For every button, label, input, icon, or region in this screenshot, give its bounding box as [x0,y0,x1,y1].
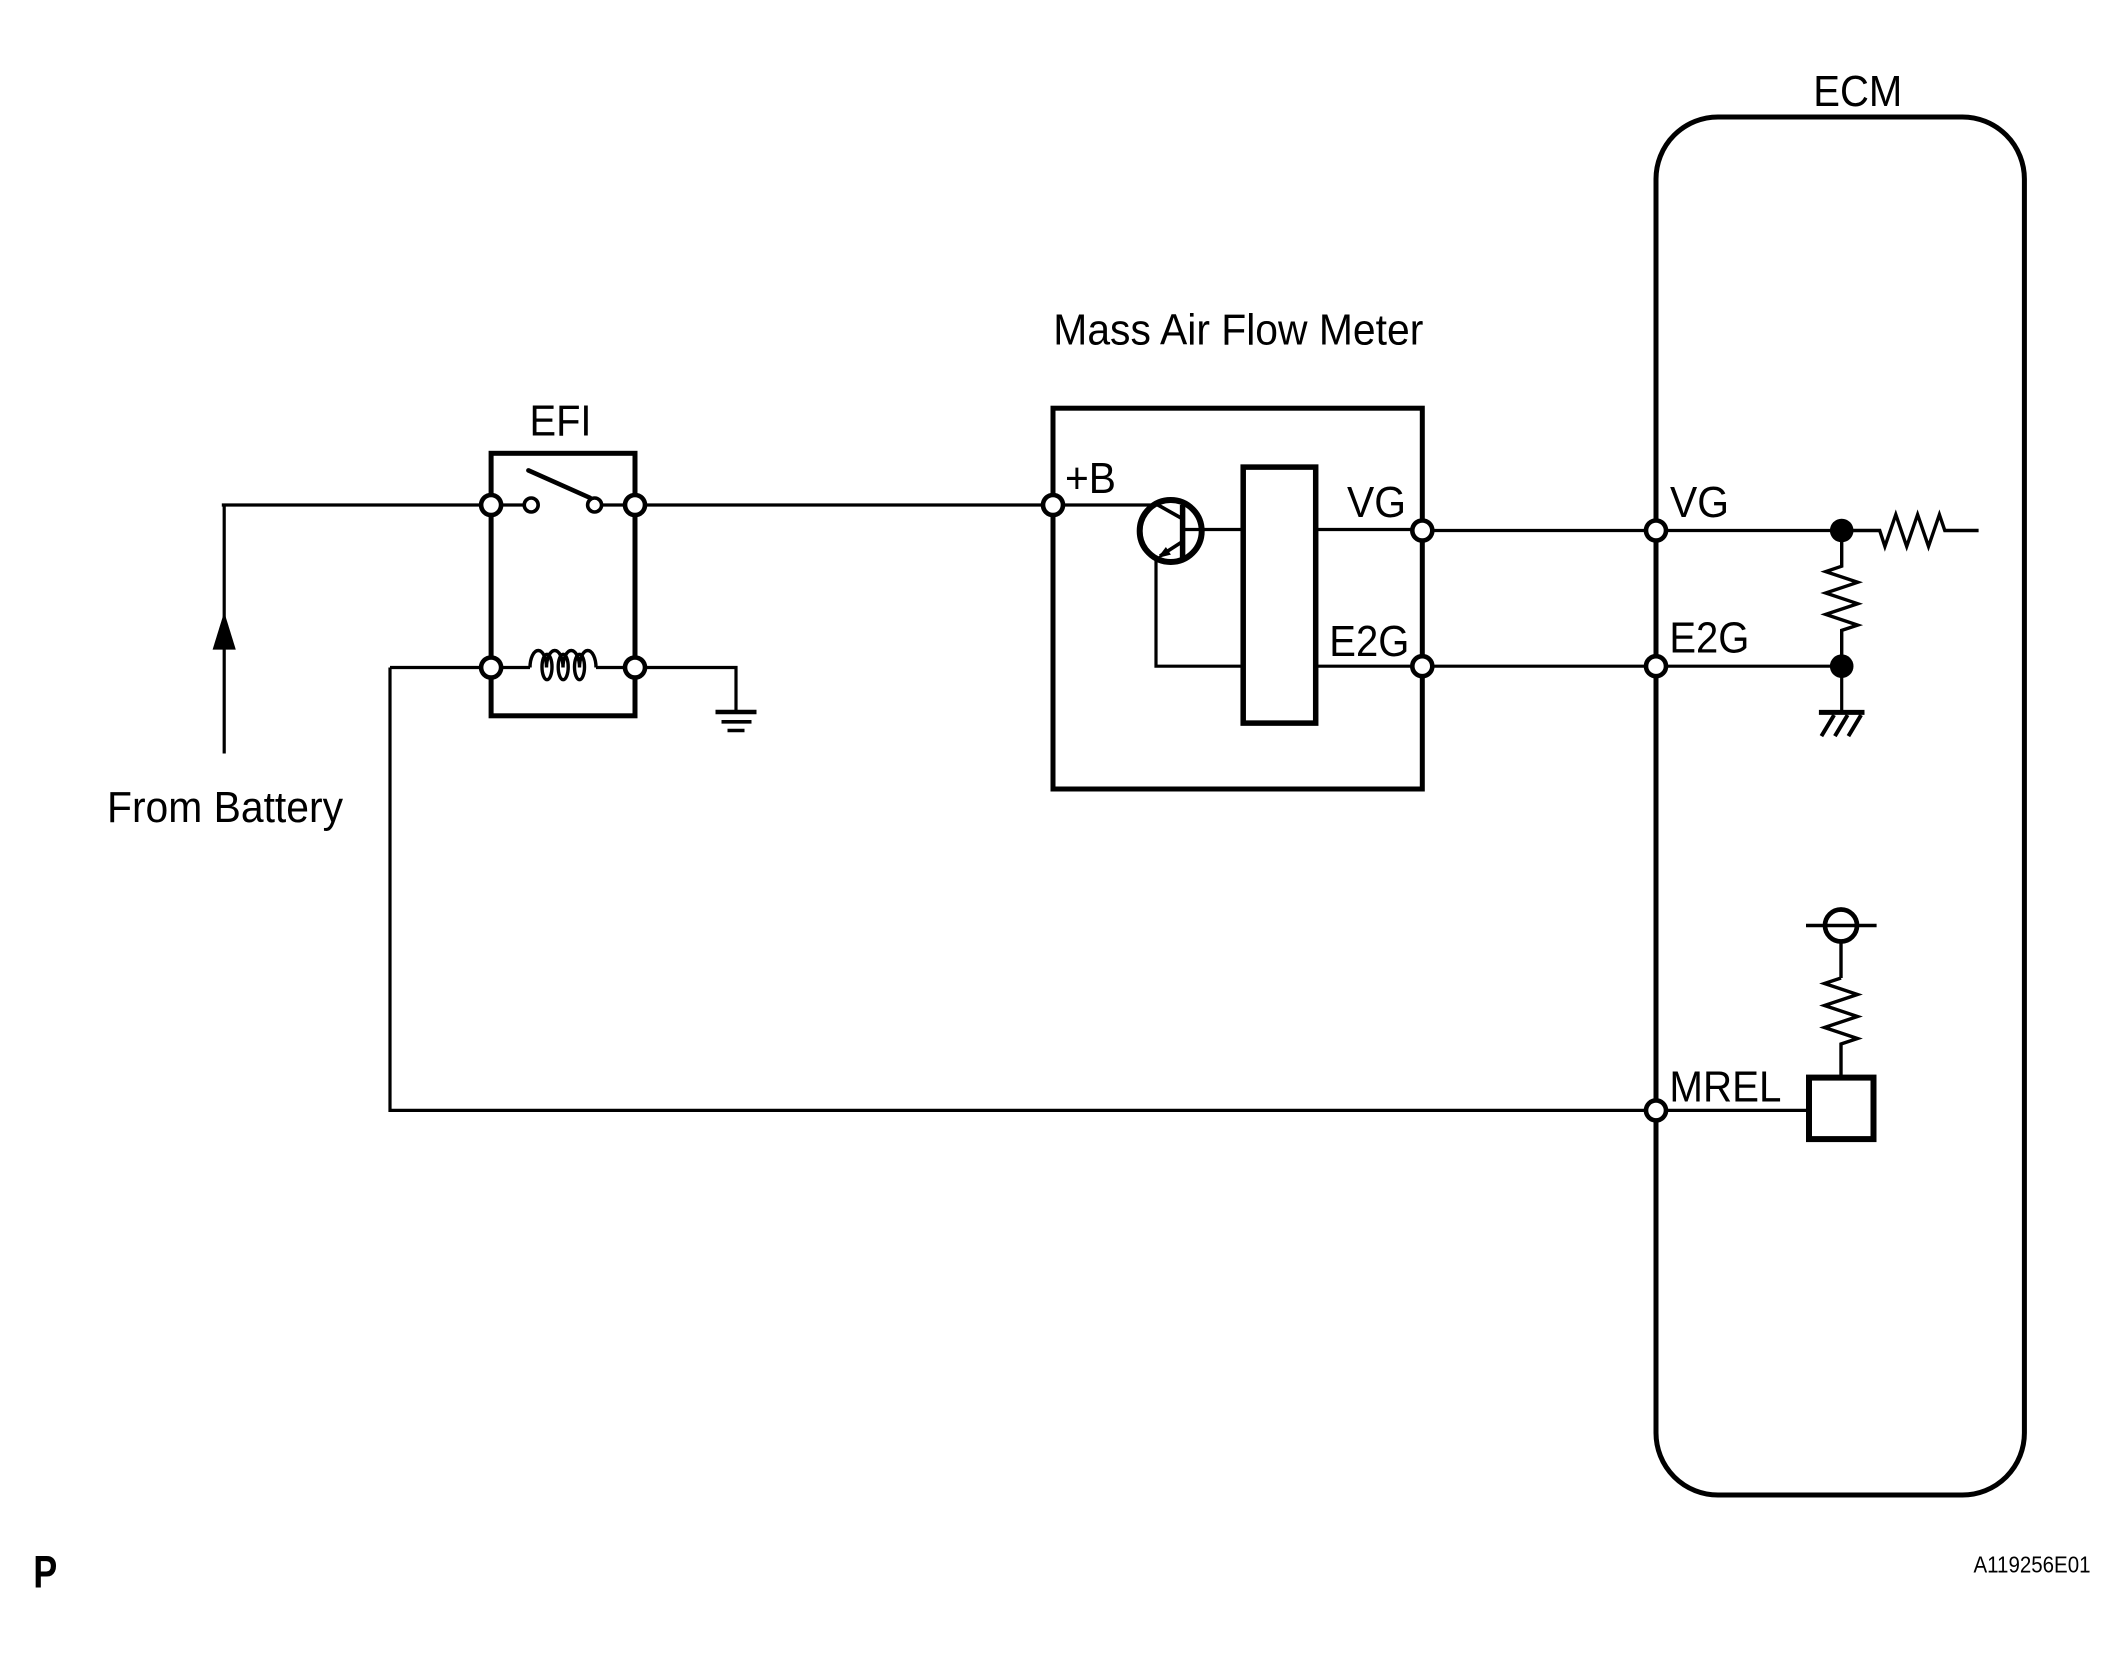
wire coil right terminal to ground [635,668,736,712]
junction node VG [1830,519,1854,543]
wire heater to MAF VG terminal [1316,528,1423,531]
terminal MAF E2G [1412,656,1432,676]
resistor R1 (VG load, horizontal) [1842,515,1979,547]
ground (ECM signal ground) [1819,710,1865,715]
power feed symbol (circle with line) [1825,910,1857,942]
EFI relay box [491,453,635,716]
terminal MAF VG [1412,521,1432,541]
Mass Air Flow Meter box [1053,408,1422,789]
heater resistor element (MAF sensing element) [1243,467,1316,723]
svg-text:P: P [33,1546,57,1597]
battery feed arrowhead [213,612,236,650]
ground (EFI relay coil) [716,710,757,715]
wire +B to transistor [1053,503,1159,506]
transistor Q1 emitter arrowhead [1158,547,1171,558]
wire E2G external (MAF to ECM) [1422,665,1656,668]
wire switch right segment [602,503,635,506]
wire VG inside ECM [1656,529,1842,532]
wire E2G to signal ground [1840,666,1843,712]
wire emitter down and right to heater rect [1156,558,1243,666]
transistor Q1 base bar [1180,505,1186,558]
wire MREL inside ECM [1656,1109,1809,1112]
svg-text:+B: +B [1065,454,1116,503]
terminal ECM MREL [1646,1100,1666,1120]
svg-text:MREL: MREL [1669,1062,1781,1111]
resistor R2 (VG to E2G, vertical) [1826,531,1858,667]
transistor Q1 collector entry diagonal [1158,505,1182,519]
wire circle to resistor R3 [1839,944,1842,979]
EFI relay coil [530,651,596,668]
wire battery vertical [223,505,226,754]
wire coil row left (to down loop) [390,666,530,669]
ECM box [1656,117,2024,1495]
svg-text:E2G: E2G [1329,617,1409,666]
svg-text:VG: VG [1670,478,1729,527]
EFI relay switch contact circle right [588,498,602,512]
wire coil to right terminal [596,666,635,669]
driver block (square) [1809,1078,1874,1140]
terminal ECM VG [1646,521,1666,541]
wire transistor to heater rect (VG row) [1183,528,1244,531]
terminal EFI right upper [625,495,645,515]
wire E2G inside ECM [1656,665,1842,668]
terminal MAF +B [1043,495,1063,515]
svg-text:Mass Air Flow Meter: Mass Air Flow Meter [1053,306,1423,355]
svg-text:E2G: E2G [1669,614,1749,663]
svg-text:VG: VG [1347,478,1406,527]
wire MREL loop (down, across, to ECM) [390,668,1656,1111]
transistor Q1 emitter diagonal [1160,542,1183,557]
terminal ECM E2G [1646,656,1666,676]
wire heater to MAF E2G terminal [1316,665,1423,668]
svg-text:A119256E01: A119256E01 [1974,1551,2091,1577]
EFI relay switch contact circle left [524,498,538,512]
transistor Q1 circle [1140,500,1202,562]
wire VG external (MAF to ECM) [1422,529,1656,532]
wire top long (EFI to MAF +B) [635,503,1053,506]
resistor R3 (MREL pull-up, vertical) [1825,978,1858,1078]
wire switch left segment [491,503,524,506]
wire battery horizontal [222,503,491,506]
terminal EFI right lower [625,658,645,678]
junction node E2G [1830,654,1854,678]
svg-text:EFI: EFI [530,397,592,446]
svg-text:From Battery: From Battery [107,783,343,832]
terminal EFI left lower [481,658,501,678]
EFI relay switch blade [528,470,590,497]
terminal EFI left upper [481,495,501,515]
svg-text:ECM: ECM [1813,67,1902,116]
